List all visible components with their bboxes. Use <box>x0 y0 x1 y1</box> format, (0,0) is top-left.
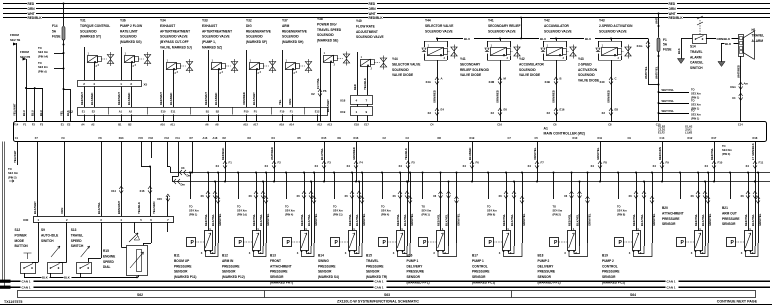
svg-text:ORN/RED: ORN/RED <box>496 90 500 103</box>
svg-text:Y37: Y37 <box>282 19 288 23</box>
svg-text:TX1197575: TX1197575 <box>4 300 22 304</box>
solenoid Y32 DIG REGENERATIVE label <box>246 19 271 45</box>
solenoid Y34 EXHAUST AFTERTREATMENT (BYPASS) solenoid symbol <box>164 50 193 107</box>
svg-text:D13: D13 <box>119 136 124 140</box>
svg-text:RED/YEL: RED/YEL <box>502 214 506 226</box>
svg-text:B2: B2 <box>216 110 220 114</box>
svg-text:SENSOR: SENSOR <box>602 275 616 279</box>
svg-text:(MARKED P11): (MARKED P11) <box>174 275 197 279</box>
svg-text:CONTINUE NEXT PAGE: CONTINUE NEXT PAGE <box>717 299 758 303</box>
svg-text:SE4 Xm: SE4 Xm <box>8 171 19 175</box>
svg-text:TO: TO <box>237 205 241 209</box>
svg-text:F9: F9 <box>666 161 670 165</box>
svg-text:SOLENOID: SOLENOID <box>282 35 299 39</box>
svg-text:PRESSURE: PRESSURE <box>318 264 336 268</box>
svg-text:Y33: Y33 <box>202 19 208 23</box>
svg-text:E4: E4 <box>441 108 445 112</box>
svg-text:BLU: BLU <box>31 110 35 116</box>
svg-text:X5: X5 <box>144 83 148 87</box>
svg-text:A11: A11 <box>170 123 175 127</box>
svg-text:Am: Am <box>744 82 749 86</box>
svg-text:SOLENOID: SOLENOID <box>519 68 536 72</box>
svg-text:MODE: MODE <box>15 239 25 243</box>
switch S12 POWER MODE BUTTON switch symbol <box>21 253 36 274</box>
svg-text:SOLENOID VALVE: SOLENOID VALVE <box>488 29 516 33</box>
svg-text:RED/YEL: RED/YEL <box>632 214 636 226</box>
svg-text:BLU: BLU <box>585 37 591 41</box>
solenoid Y32 DIG REGENERATIVE solenoid symbol <box>247 50 276 107</box>
svg-text:RED/YEL: RED/YEL <box>348 214 352 226</box>
solenoid Y36 PUMP 2 FLOW RATE LIMIT solenoid symbol <box>122 47 151 80</box>
svg-text:BLK/RED: BLK/RED <box>127 93 131 105</box>
svg-text:TO: TO <box>38 46 42 50</box>
svg-text:SENSOR: SENSOR <box>722 222 736 226</box>
svg-text:X6: X6 <box>249 194 253 198</box>
svg-text:B11: B11 <box>174 254 180 258</box>
svg-text:5A: 5A <box>663 43 668 47</box>
solenoid valve Y43 2-SPEED ACTIVATION top label <box>599 19 633 34</box>
svg-text:F1: F1 <box>663 38 667 42</box>
svg-text:BLK/YEL: BLK/YEL <box>445 214 449 226</box>
note CONTINUE NEXT PAGE <box>717 299 758 303</box>
svg-text:YEL/BLK: YEL/BLK <box>363 78 367 90</box>
svg-text:SOLENOID: SOLENOID <box>392 68 409 72</box>
svg-text:Y44: Y44 <box>425 19 431 23</box>
svg-text:X4A: X4A <box>426 80 431 84</box>
svg-text:ORN: ORN <box>288 99 292 105</box>
switch S12 POWER MODE BUTTON label <box>15 228 29 248</box>
svg-text:A14: A14 <box>289 123 294 127</box>
svg-text:VALVE, MARKED SJ): VALVE, MARKED SJ) <box>160 46 192 50</box>
off-page arrow FROM SE2 P6 <box>20 50 31 61</box>
svg-text:DIAL: DIAL <box>103 265 110 269</box>
svg-text:AFTERTREATMENT: AFTERTREATMENT <box>160 29 190 33</box>
svg-text:X6: X6 <box>691 194 695 198</box>
pressure sensor B13 FRONT ATTACHMENT label <box>270 254 293 285</box>
solenoid Y34 EXHAUST AFTERTREATMENT (BYPASS) wire color labels <box>159 92 173 105</box>
svg-text:H1: H1 <box>752 28 756 32</box>
title ZX110LC-W SYSTEM/FUNCTIONAL SCHEMATIC <box>337 299 419 303</box>
pressure sensor B21 ARM OUT transducer symbol <box>727 227 759 257</box>
svg-text:A8: A8 <box>215 123 219 127</box>
svg-text:BLK/YEL: BLK/YEL <box>97 202 101 214</box>
svg-text:Y40: Y40 <box>356 19 362 23</box>
svg-text:P1: P1 <box>254 110 258 114</box>
svg-text:X4m: X4m <box>730 85 736 89</box>
svg-text:ACTIVATION: ACTIVATION <box>578 68 598 72</box>
solenoid valve Y41 SECONDARY RELIEF connector pairs <box>489 77 508 116</box>
svg-text:WHT/RED: WHT/RED <box>270 147 274 160</box>
branch wire to pin E2 <box>60 88 71 122</box>
signal wire with connector X4-2 <box>265 142 282 183</box>
stub TO SE4 Dm (PIN 3) <box>722 144 732 156</box>
svg-text:X4: X4 <box>315 164 319 168</box>
pressure sensor B17 PUMP 1 CONTROL supply drop wires <box>487 172 526 247</box>
svg-text:RED/YEL: RED/YEL <box>437 214 441 226</box>
CAN 1 bus wire low <box>0 286 770 288</box>
svg-text:RELIEF SOLENOID: RELIEF SOLENOID <box>460 68 490 72</box>
svg-text:SWITCH: SWITCH <box>690 66 703 70</box>
svg-text:GRN/YEL: GRN/YEL <box>410 213 414 226</box>
svg-text:ORN/YEL: ORN/YEL <box>533 147 537 160</box>
svg-text:PUMP 2: PUMP 2 <box>602 259 614 263</box>
svg-text:(PIN 4): (PIN 4) <box>285 213 293 217</box>
alarm H1 TRAVEL ALARM <box>739 28 765 59</box>
svg-text:TO: TO <box>691 99 695 103</box>
svg-text:C2: C2 <box>383 136 387 140</box>
svg-text:ORN/RED: ORN/RED <box>242 92 246 105</box>
svg-text:SECONDARY: SECONDARY <box>460 62 481 66</box>
svg-text:E11: E11 <box>171 110 176 114</box>
svg-text:BLK/YEL: BLK/YEL <box>701 214 705 226</box>
svg-text:E16: E16 <box>560 108 565 112</box>
svg-text:DELIVERY: DELIVERY <box>407 264 424 268</box>
svg-text:SPEED: SPEED <box>71 239 83 243</box>
svg-text:SENSOR: SENSOR <box>318 270 332 274</box>
svg-text:RED/BLK: RED/BLK <box>221 148 225 160</box>
svg-text:ORN: ORN <box>369 7 377 11</box>
svg-text:C3: C3 <box>406 136 410 140</box>
svg-text:C13: C13 <box>660 136 665 140</box>
svg-text:A1: A1 <box>119 110 123 114</box>
svg-text:AFTERTREATMENT: AFTERTREATMENT <box>202 29 232 33</box>
svg-text:(MARKED S4): (MARKED S4) <box>318 275 339 279</box>
wires to sensor supply buses from pins F12 F11 <box>167 142 179 182</box>
svg-text:REGENERATIVE: REGENERATIVE <box>282 29 307 33</box>
svg-text:A1: A1 <box>544 126 548 130</box>
svg-text:D2: D2 <box>223 136 227 140</box>
svg-text:BRN/WHT: BRN/WHT <box>117 201 121 214</box>
svg-text:B2: B2 <box>128 123 132 127</box>
svg-text:Y41: Y41 <box>460 57 466 61</box>
svg-text:SECONDARY RELIEF: SECONDARY RELIEF <box>488 24 520 28</box>
connector strip X2 (main harness) <box>69 107 328 122</box>
svg-text:BLU: BLU <box>22 110 26 116</box>
svg-text:D11: D11 <box>598 136 603 140</box>
svg-text:A2: A2 <box>91 123 95 127</box>
svg-text:X2: X2 <box>69 110 73 114</box>
svg-text:B17: B17 <box>472 254 478 258</box>
svg-text:PRESSURE: PRESSURE <box>407 270 425 274</box>
svg-text:(BYPASS CUT-OFF: (BYPASS CUT-OFF <box>160 40 189 44</box>
svg-text:B21: B21 <box>722 206 728 210</box>
svg-text:TO: TO <box>422 205 426 209</box>
svg-text:REGENERATIVE: REGENERATIVE <box>246 29 271 33</box>
controller bottom pin labels <box>15 136 758 140</box>
svg-text:(PIN 8): (PIN 8) <box>617 213 625 217</box>
sensor ground bus wire <box>172 179 770 187</box>
svg-text:X4C: X4C <box>600 80 605 84</box>
svg-text:ACCUMULATOR: ACCUMULATOR <box>544 24 570 28</box>
svg-text:(PIN 1): (PIN 1) <box>422 213 430 217</box>
svg-text:F12: F12 <box>165 136 170 140</box>
svg-text:C16: C16 <box>497 123 502 127</box>
svg-text:TO: TO <box>691 109 695 113</box>
svg-text:YEL/WHT: YEL/WHT <box>13 103 17 116</box>
svg-text:TRAVEL: TRAVEL <box>71 233 84 237</box>
stub TO SE3 Xm (PIN h4) <box>38 46 65 58</box>
svg-text:(PIN 1): (PIN 1) <box>189 213 197 217</box>
svg-text:(MARKED ST): (MARKED ST) <box>80 35 101 39</box>
svg-text:VALVE DIODE: VALVE DIODE <box>392 73 413 77</box>
bottom border <box>0 304 772 306</box>
svg-text:X6: X6 <box>433 194 437 198</box>
svg-text:X4B: X4B <box>545 80 550 84</box>
svg-text:F11: F11 <box>759 161 764 165</box>
solenoid Y37 ARM REGENERATIVE solenoid symbol <box>283 50 312 107</box>
svg-text:F4: F4 <box>360 161 364 165</box>
signal wire with connector X4-10 <box>705 142 723 183</box>
svg-text:D7: D7 <box>190 136 194 140</box>
svg-text:F8: F8 <box>604 161 608 165</box>
svg-text:X3: X3 <box>428 111 432 115</box>
svg-text:MARKED SZ): MARKED SZ) <box>202 46 222 50</box>
svg-text:SENSOR: SENSOR <box>222 270 236 274</box>
solenoid Y33 EXHAUST AFTERTREATMENT (PUMP 1) wire color labels <box>204 92 218 105</box>
svg-text:YEL: YEL <box>60 110 64 116</box>
svg-text:SE4 Xm: SE4 Xm <box>237 209 247 213</box>
svg-text:POWER DIG/: POWER DIG/ <box>317 22 337 26</box>
svg-text:BLK/YEL: BLK/YEL <box>576 214 580 226</box>
solenoid Y38 POWER DIG/TRAVEL SPEED label <box>317 17 342 43</box>
svg-text:D9: D9 <box>338 136 342 140</box>
solenoid Y36 PUMP 2 FLOW RATE LIMIT label <box>120 19 142 45</box>
svg-text:SOLENOID: SOLENOID <box>80 29 97 33</box>
pressure sensor B21 ARM OUT label <box>722 206 740 226</box>
pressure sensor B14 SWING transducer symbol <box>331 227 363 257</box>
switch S13 TRAVEL SPEED switch symbol <box>77 246 92 274</box>
svg-text:PRESSURE: PRESSURE <box>602 270 620 274</box>
wire switch to ground <box>677 39 692 59</box>
svg-text:Y44: Y44 <box>392 57 398 61</box>
solenoid Y36 PUMP 2 FLOW RATE LIMIT wire color labels <box>117 92 131 105</box>
svg-text:TO: TO <box>38 61 42 65</box>
svg-text:CAN 1: CAN 1 <box>667 285 676 289</box>
svg-text:Y42: Y42 <box>544 19 550 23</box>
svg-text:BLK/YEL: BLK/YEL <box>211 214 215 226</box>
svg-text:PRESSURE: PRESSURE <box>722 217 740 221</box>
svg-text:SENSOR: SENSOR <box>662 222 676 226</box>
svg-text:VALVE DIODE: VALVE DIODE <box>519 73 540 77</box>
svg-text:TO: TO <box>333 205 337 209</box>
svg-text:RED: RED <box>28 2 35 6</box>
svg-text:X3: X3 <box>491 111 495 115</box>
solenoid valve Y43 2-SPEED ACTIVATION diode label <box>578 57 599 83</box>
svg-text:SPEED: SPEED <box>103 260 115 264</box>
solenoid Y33 EXHAUST AFTERTREATMENT (PUMP 1) solenoid symbol <box>209 50 238 107</box>
svg-text:GRN/YEL: GRN/YEL <box>456 213 460 226</box>
solenoid valve Y43 2-SPEED ACTIVATION connector pairs <box>600 77 619 116</box>
svg-text:(PIN 2): (PIN 2) <box>553 213 561 217</box>
svg-text:B13: B13 <box>270 254 276 258</box>
pressure sensor B19 PUMP 2 CONTROL label <box>602 254 625 285</box>
svg-text:X30: X30 <box>23 218 29 222</box>
signal wire with connector X4-11 <box>746 142 764 183</box>
svg-text:SENSOR: SENSOR <box>407 275 421 279</box>
svg-text:BLU: BLU <box>540 37 546 41</box>
svg-text:RED/YEL: RED/YEL <box>204 214 208 226</box>
svg-text:RED/BLK: RED/BLK <box>369 16 384 20</box>
svg-text:Y43: Y43 <box>578 57 584 61</box>
svg-text:DIG: DIG <box>246 24 252 28</box>
svg-text:P10: P10 <box>244 110 249 114</box>
svg-text:F10: F10 <box>280 110 285 114</box>
svg-text:SE4 Xm: SE4 Xm <box>381 209 391 213</box>
svg-text:SE3 2m: SE3 2m <box>38 65 48 69</box>
solenoid Y33 EXHAUST AFTERTREATMENT (PUMP 1) label <box>202 19 232 50</box>
svg-text:TRAVEL SPEED: TRAVEL SPEED <box>317 28 342 32</box>
wires controller to switch strip X30 <box>33 142 101 217</box>
svg-text:RED: RED <box>669 2 676 6</box>
pressure sensor B20 ATTACHMENT transducer symbol <box>677 227 709 257</box>
svg-text:X4: X4 <box>653 164 657 168</box>
svg-text:RED/YEL: RED/YEL <box>396 214 400 226</box>
svg-text:TRAVEL: TRAVEL <box>690 50 703 54</box>
svg-text:Y32: Y32 <box>246 19 252 23</box>
wire from SE2 P6, branch node <box>22 59 43 122</box>
pressure sensor B14 SWING supply drop wires <box>333 172 366 247</box>
svg-text:CAN 1: CAN 1 <box>375 279 384 283</box>
svg-text:CANCEL: CANCEL <box>690 61 703 65</box>
svg-text:EXHAUST: EXHAUST <box>202 24 217 28</box>
svg-text:BLK/YEL: BLK/YEL <box>403 214 407 226</box>
ground at S14 <box>677 59 684 64</box>
solenoid valve Y41 SECONDARY RELIEF diode label <box>460 57 490 77</box>
engine speed dial R15 label <box>103 249 115 269</box>
pressure sensor B16 PUMP 1 DELIVERY supply drop wires <box>422 172 461 247</box>
junction node on RED bus <box>63 3 65 5</box>
svg-text:BLK/YEL: BLK/YEL <box>355 214 359 226</box>
svg-text:E2: E2 <box>67 123 71 127</box>
svg-text:(PUMP 1,: (PUMP 1, <box>202 40 216 44</box>
svg-text:Y42: Y42 <box>519 57 525 61</box>
solenoid Y37 ARM REGENERATIVE wire color labels <box>278 99 292 105</box>
svg-text:GRN/YEL: GRN/YEL <box>708 213 712 226</box>
svg-text:TO: TO <box>285 205 289 209</box>
svg-text:SENSOR: SENSOR <box>174 270 188 274</box>
fuse F1 5A <box>654 14 671 122</box>
pressure sensor B13 FRONT ATTACHMENT supply drop wires <box>285 172 318 247</box>
svg-text:BLK: BLK <box>64 276 70 280</box>
svg-text:X6: X6 <box>564 194 568 198</box>
svg-text:S62: S62 <box>137 293 143 297</box>
svg-text:X4: X4 <box>463 164 467 168</box>
connector strip X5 <box>78 81 148 108</box>
svg-text:ATTACHMENT: ATTACHMENT <box>270 264 292 268</box>
svg-text:(MARKED P12): (MARKED P12) <box>222 275 245 279</box>
svg-text:D16: D16 <box>354 136 359 140</box>
solenoid valve Y44 SELECTOR top label <box>425 19 453 34</box>
stub TO SE3 2m (PIN d) <box>38 61 65 73</box>
svg-text:ARM OUT: ARM OUT <box>722 211 737 215</box>
svg-text:GRN/YEL: GRN/YEL <box>218 213 222 226</box>
svg-text:D18: D18 <box>753 136 758 140</box>
solenoid Y40 symbol <box>358 52 387 95</box>
svg-text:B19: B19 <box>602 254 608 258</box>
switch S9 AUTO-IDLE label <box>41 228 58 243</box>
svg-text:BLK/YEL: BLK/YEL <box>307 214 311 226</box>
svg-text:(PIN 11): (PIN 11) <box>333 213 343 217</box>
svg-text:A4: A4 <box>81 123 85 127</box>
pressure sensor B15 TRAVEL supply drop wires <box>381 172 414 247</box>
svg-text:Y36: Y36 <box>120 19 126 23</box>
CAN bus labels <box>21 279 679 290</box>
signal wire with connector X4-1 <box>216 142 233 183</box>
svg-text:ACCUMULATOR: ACCUMULATOR <box>519 62 545 66</box>
svg-text:S9: S9 <box>41 228 45 232</box>
solenoid valve Y42 ACCUMULATOR solenoid with diode <box>541 38 576 122</box>
svg-text:ORN/RED: ORN/RED <box>433 90 437 103</box>
svg-text:X4: X4 <box>399 164 403 168</box>
pressure sensor B11 BOOM UP transducer symbol <box>187 227 219 257</box>
svg-text:Y34: Y34 <box>160 19 166 23</box>
controller top pin labels <box>14 123 744 127</box>
svg-text:SOLENOID VALVE: SOLENOID VALVE <box>160 35 188 39</box>
svg-text:TO: TO <box>8 167 12 171</box>
pressure sensor B16 PUMP 1 DELIVERY label <box>407 254 430 285</box>
svg-text:RED/BLK: RED/BLK <box>28 16 43 20</box>
svg-text:C10: C10 <box>656 123 661 127</box>
svg-text:RED/YEL: RED/YEL <box>744 214 748 226</box>
svg-text:D10: D10 <box>573 136 578 140</box>
switch S9 AUTO-IDLE switch symbol <box>48 246 63 274</box>
svg-text:GRN/YEL: GRN/YEL <box>758 213 762 226</box>
connector X4m pair <box>730 82 749 90</box>
svg-text:C14: C14 <box>738 123 743 127</box>
solenoid valve Y42 ACCUMULATOR diode label <box>519 57 545 77</box>
svg-text:X4: X4 <box>732 96 736 100</box>
svg-text:E2: E2 <box>92 110 96 114</box>
svg-text:F14: F14 <box>52 24 58 28</box>
svg-text:WHT/YEL: WHT/YEL <box>654 66 658 79</box>
svg-text:LT GRN/BLK: LT GRN/BLK <box>751 143 755 160</box>
signal wire with connector X4-3 <box>315 142 332 183</box>
svg-text:TO: TO <box>617 205 621 209</box>
solenoid Y40 FLOW RATE ADJUSTMENT label <box>356 19 384 39</box>
svg-text:X3: X3 <box>547 111 551 115</box>
svg-text:R15: R15 <box>103 249 109 253</box>
svg-text:Y31: Y31 <box>80 19 86 23</box>
svg-text:(PIN 3): (PIN 3) <box>722 152 730 156</box>
svg-text:SE4 Xm: SE4 Xm <box>285 209 295 213</box>
svg-text:B18: B18 <box>538 254 544 258</box>
svg-text:PUMP 1: PUMP 1 <box>472 259 484 263</box>
svg-text:RED/YEL: RED/YEL <box>568 214 572 226</box>
svg-text:SWITCH: SWITCH <box>71 244 84 248</box>
svg-text:SE3 Xm: SE3 Xm <box>691 103 701 107</box>
svg-text:F11: F11 <box>176 136 181 140</box>
svg-text:PRESSURE: PRESSURE <box>662 217 680 221</box>
svg-text:2-SPEED ACTIVATION: 2-SPEED ACTIVATION <box>599 24 633 28</box>
connector strip X30 <box>23 217 174 223</box>
svg-text:RED/YEL: RED/YEL <box>710 148 714 160</box>
svg-text:D5: D5 <box>298 136 302 140</box>
sensor 5V supply bus wire <box>170 166 770 178</box>
pressure sensor B14 SWING label <box>318 254 339 280</box>
svg-text:PRESSURE: PRESSURE <box>366 264 384 268</box>
svg-text:A6: A6 <box>205 123 209 127</box>
svg-text:ORN/BLK: ORN/BLK <box>717 37 731 41</box>
svg-text:GRN/YEL: GRN/YEL <box>314 213 318 226</box>
svg-text:FROM: FROM <box>20 50 29 54</box>
svg-text:X4: X4 <box>528 164 532 168</box>
svg-text:C5: C5 <box>535 136 539 140</box>
svg-text:E6: E6 <box>504 108 508 112</box>
svg-text:TO: TO <box>487 205 491 209</box>
svg-text:X6: X6 <box>297 194 301 198</box>
svg-text:A17: A17 <box>253 123 258 127</box>
solenoid Y31 TORQUE CONTROL label <box>80 19 110 39</box>
